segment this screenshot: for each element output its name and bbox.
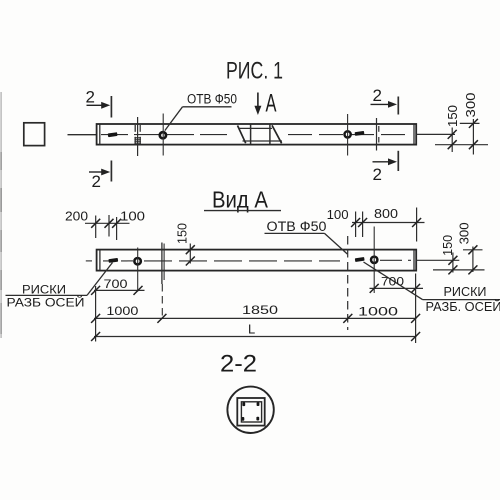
beam axis dashed centerline	[101, 134, 233, 136]
leader РИСКИ РАЗБ ОСЕЙ left	[87, 263, 113, 296]
svg-text:800: 800	[374, 207, 398, 221]
dim L overall	[94, 336, 417, 338]
leader РИСКИ РАЗБ ОСЕЙ right	[364, 262, 423, 300]
centerline through right hole	[347, 114, 349, 156]
svg-text:150: 150	[441, 235, 455, 256]
svg-text:РИСКИ: РИСКИ	[22, 282, 66, 296]
svg-text:ОТВ Ф50: ОТВ Ф50	[187, 92, 237, 107]
beam left inner edge line	[99, 124, 101, 144]
svg-text:150: 150	[176, 223, 190, 244]
dim line 300 (view A right)	[472, 247, 474, 273]
svg-text:300: 300	[457, 222, 471, 244]
dim line 300 (fig.1)	[472, 119, 474, 155]
dim line 150 (fig.1)	[451, 128, 453, 153]
svg-text:2: 2	[373, 86, 382, 105]
rebar dots	[242, 402, 245, 406]
scan edge artifact left border	[0, 92, 2, 338]
svg-text:РИСКИ: РИСКИ	[444, 284, 487, 299]
centerline through left hole	[162, 114, 164, 156]
right axis dashed line (view A)	[347, 236, 349, 330]
hatched insert parallelogram (fig.1)	[238, 125, 282, 143]
svg-text:Вид А: Вид А	[212, 187, 269, 213]
beam right inner edge line	[413, 124, 415, 144]
right dim block view A: extension lines	[463, 249, 483, 251]
riska mark left (fig.1)	[108, 132, 118, 137]
section circle	[227, 387, 273, 433]
riska mark right (fig.1)	[355, 131, 365, 136]
svg-text:300: 300	[464, 92, 478, 117]
svg-text:1000: 1000	[358, 305, 398, 319]
hole left (view A)	[134, 258, 140, 264]
centerline stubs + dashes (view A)	[86, 260, 92, 262]
beam right inner edge (view A)	[413, 250, 415, 271]
svg-text:РАЗБ. ОСЕЙ: РАЗБ. ОСЕЙ	[426, 299, 500, 314]
svg-text:100: 100	[120, 209, 145, 223]
inner square (reinforcement contour)	[241, 402, 261, 422]
svg-text:700: 700	[381, 274, 404, 288]
right dim block fig.1: extension lines	[416, 133, 455, 135]
svg-text:1000: 1000	[106, 304, 138, 318]
hole right (view A)	[371, 257, 377, 263]
svg-text:200: 200	[65, 209, 88, 223]
beam outline (fig.1)	[97, 124, 417, 145]
hole right centerline ext (view A)	[373, 227, 375, 294]
svg-text:А: А	[266, 90, 277, 118]
left axis line (view A)	[161, 243, 163, 285]
beam outline (view A)	[97, 250, 417, 271]
detached square (end view of beam)	[24, 123, 45, 146]
svg-text:100: 100	[327, 208, 349, 222]
svg-text:150: 150	[446, 105, 460, 127]
view arrow A	[257, 93, 259, 108]
svg-text:1850: 1850	[242, 303, 278, 317]
dim chain 1000 / 1850 / 1000	[94, 317, 417, 319]
dim 150 (view A)	[189, 244, 191, 264]
svg-text:РАЗБ ОСЕЙ: РАЗБ ОСЕЙ	[7, 295, 85, 310]
section line right (fig.1)	[376, 118, 378, 151]
riska mark left (view A)	[108, 258, 118, 263]
beam left inner edge (view A)	[99, 250, 101, 271]
svg-text:ОТВ Ф50: ОТВ Ф50	[267, 219, 327, 234]
centerline right ext (view A)	[417, 259, 460, 261]
dims 200 / 100 top-left (view A)	[85, 222, 130, 224]
svg-text:РИС. 1: РИС. 1	[226, 58, 283, 85]
section line left with hatch (fig.1)	[137, 117, 139, 156]
svg-text:2: 2	[92, 172, 101, 191]
hole right (fig.1)	[345, 131, 351, 137]
centerline left stub	[68, 134, 97, 136]
svg-text:2: 2	[86, 88, 95, 107]
riska mark right (view A)	[355, 257, 365, 262]
svg-text:L: L	[248, 322, 255, 337]
svg-text:2: 2	[373, 165, 382, 184]
svg-text:700: 700	[104, 277, 128, 291]
hole ОТВ Ф50 left (fig.1)	[160, 132, 166, 138]
dim line 150 (view A right)	[452, 253, 454, 273]
extension verticals bottom chain	[95, 286, 97, 342]
hole left centerline ext (view A)	[137, 248, 139, 292]
outer square of section	[237, 398, 264, 426]
dims 100 / 800 top-right (view A)	[352, 222, 425, 224]
svg-text:2-2: 2-2	[220, 351, 257, 378]
